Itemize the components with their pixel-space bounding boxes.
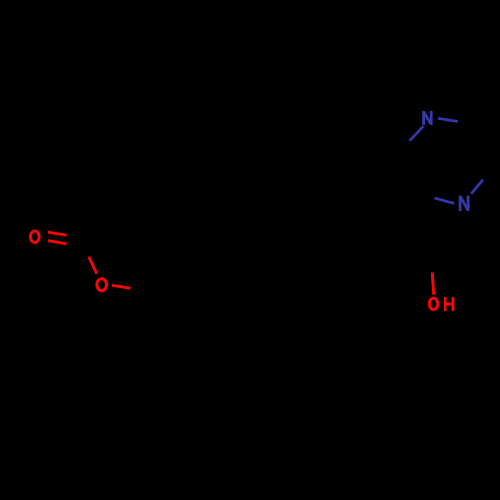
bond C7-O3 red half (hydroxyl bond) [432, 272, 434, 294]
atom H (hydroxyl hydrogen label) [445, 297, 453, 311]
atom O2 (ester oxygen label) [97, 279, 107, 291]
bond N2-C6 blue half (to upper right) [471, 180, 483, 194]
bond O2-C2 red half [112, 285, 131, 288]
atom N1 (pyrazine nitrogen label, top) [424, 111, 432, 125]
bond N2-C5 blue half (to left) [434, 198, 454, 203]
bond C1-O2 red half [89, 257, 97, 274]
bond N1-C4 blue half (to lower left) [410, 126, 424, 141]
bond C1=O1 upper half (red) [48, 232, 67, 235]
bond C1=O1 lower half (red) [48, 241, 67, 244]
atom N2 (pyrazine nitrogen label, bottom) [460, 196, 468, 211]
atom O3 (hydroxyl oxygen label) [429, 298, 437, 309]
atom O1 (carbonyl oxygen label) [30, 231, 39, 243]
bond N1-C3 blue half (to upper right) [438, 118, 458, 121]
